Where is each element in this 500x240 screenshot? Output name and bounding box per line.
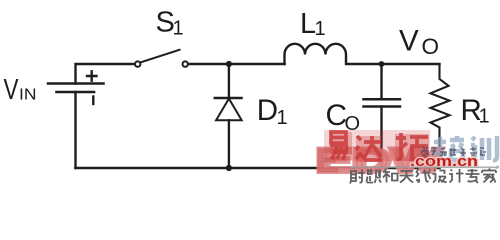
svg-text:V: V xyxy=(399,25,419,58)
svg-text:O: O xyxy=(422,34,440,59)
svg-text:1: 1 xyxy=(277,107,288,129)
svg-text:IN: IN xyxy=(19,87,37,104)
svg-text:1: 1 xyxy=(173,17,184,39)
svg-text:V: V xyxy=(4,74,20,106)
svg-text:1: 1 xyxy=(479,106,490,128)
svg-text:1: 1 xyxy=(315,18,326,40)
svg-text:D: D xyxy=(257,94,278,127)
